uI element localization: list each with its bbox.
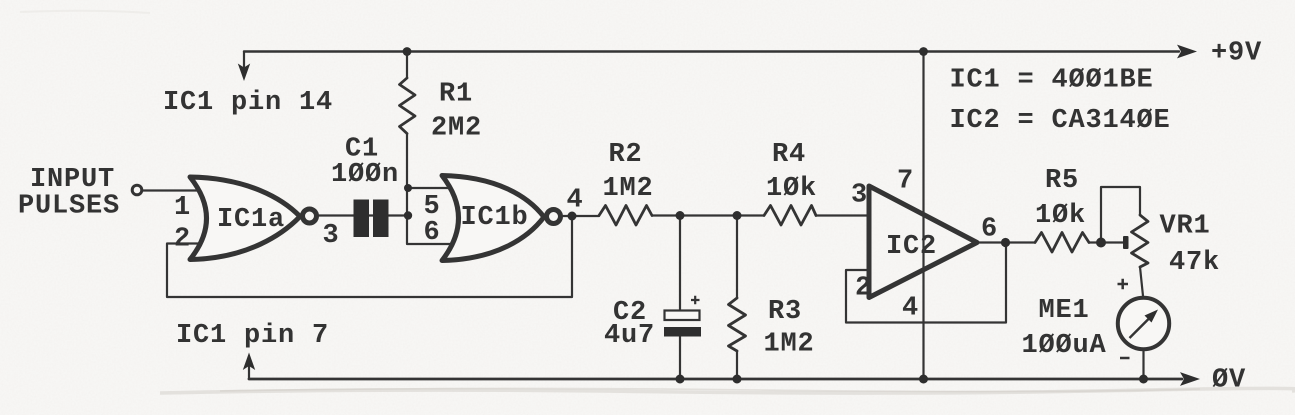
svg-text:ØV: ØV — [1212, 366, 1246, 396]
svg-text:VR1: VR1 — [1160, 212, 1211, 242]
svg-text:IC1 pin 7: IC1 pin 7 — [176, 321, 329, 351]
svg-text:PULSES: PULSES — [18, 192, 120, 222]
svg-text:7: 7 — [897, 167, 914, 197]
svg-text:1M2: 1M2 — [764, 330, 815, 360]
svg-text:2M2: 2M2 — [431, 114, 482, 144]
svg-text:R4: R4 — [772, 140, 806, 170]
svg-text:4: 4 — [902, 294, 919, 324]
svg-text:47k: 47k — [1169, 248, 1220, 278]
svg-text:R2: R2 — [609, 140, 643, 170]
svg-text:4: 4 — [567, 186, 584, 216]
svg-text:IC1a: IC1a — [217, 205, 285, 235]
svg-text:3: 3 — [323, 221, 340, 251]
svg-text:IC2: IC2 — [886, 232, 937, 262]
svg-text:R1: R1 — [439, 80, 473, 110]
svg-text:1Øk: 1Øk — [766, 174, 817, 204]
svg-text:1ØØuA: 1ØØuA — [1022, 331, 1107, 361]
svg-text:1: 1 — [174, 193, 191, 223]
svg-text:3: 3 — [851, 181, 868, 211]
svg-text:IC1 = 4ØØ1BE: IC1 = 4ØØ1BE — [950, 66, 1154, 96]
svg-text:R5: R5 — [1045, 166, 1079, 196]
svg-text:R3: R3 — [768, 297, 802, 327]
svg-text:6: 6 — [981, 215, 998, 245]
svg-text:1Øk: 1Øk — [1035, 201, 1086, 231]
svg-text:2: 2 — [174, 225, 191, 255]
svg-text:IC1b: IC1b — [461, 203, 529, 233]
svg-text:IC1 pin 14: IC1 pin 14 — [163, 88, 333, 118]
svg-text:+9V: +9V — [1211, 39, 1262, 69]
svg-text:1M2: 1M2 — [603, 174, 654, 204]
svg-text:INPUT: INPUT — [30, 165, 115, 195]
svg-text:1ØØn: 1ØØn — [331, 160, 399, 190]
svg-text:IC2 = CA314ØE: IC2 = CA314ØE — [950, 106, 1171, 136]
svg-text:ME1: ME1 — [1039, 296, 1090, 326]
svg-text:2: 2 — [855, 274, 872, 304]
svg-text:4u7: 4u7 — [604, 321, 655, 351]
svg-text:6: 6 — [424, 218, 441, 248]
